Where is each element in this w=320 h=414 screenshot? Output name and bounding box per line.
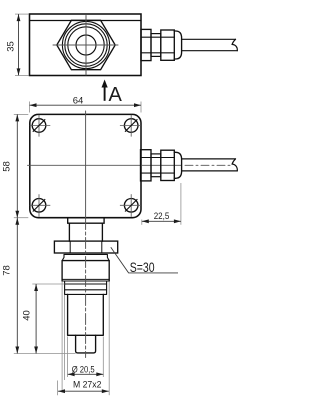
- hex nut boss (top view): [57, 20, 115, 69]
- mounting hole top-right: [120, 115, 141, 137]
- dimension 22,5: [142, 183, 181, 225]
- svg-text:40: 40: [22, 310, 33, 321]
- svg-text:S=30: S=30: [130, 259, 155, 275]
- cable top line (front view): [182, 158, 236, 160]
- dimension 40: [32, 284, 64, 354]
- leader S=30: [111, 247, 178, 273]
- boss circle inner: [68, 27, 104, 63]
- gland facet lines (top view): [141, 36, 174, 38]
- dimension M 27x2: [58, 282, 110, 396]
- svg-text:78: 78: [1, 265, 12, 276]
- pressure tip: [76, 335, 96, 353]
- dimension 78: [14, 218, 76, 354]
- gland body (front view): [161, 150, 175, 180]
- dimension Ø 20,5: [68, 337, 104, 378]
- svg-text:M 27x2: M 27x2: [73, 379, 102, 390]
- thread section M27: [62, 261, 109, 281]
- cable centerline dashes (front view): [185, 164, 233, 166]
- dimension 35 (top view height): [15, 14, 29, 75]
- cable break curve (top view): [232, 39, 237, 50]
- section arrow A: [102, 80, 123, 107]
- centerline vertical (top view): [85, 16, 87, 76]
- neck: [69, 223, 102, 241]
- cable top line (top view): [182, 38, 236, 40]
- gland facet lines (front view): [141, 157, 175, 159]
- svg-text:Ø 20,5: Ø 20,5: [72, 365, 95, 376]
- housing body (top view): [30, 14, 142, 76]
- mounting hole top-left: [30, 115, 51, 137]
- mounting hole bottom-left: [30, 194, 51, 217]
- fitting centerline: [85, 219, 87, 358]
- cable bottom line (top view): [182, 50, 238, 52]
- hex nut S=30: [54, 241, 117, 253]
- boss circle outer: [62, 21, 109, 68]
- cable bottom line (front view): [182, 170, 238, 172]
- svg-text:64: 64: [73, 96, 84, 107]
- cable break curve (front view): [232, 159, 237, 171]
- shank Ø20,5: [68, 294, 104, 335]
- svg-text:22,5: 22,5: [154, 211, 170, 222]
- dimension 58: [14, 114, 28, 217]
- housing box (front view): [30, 114, 141, 217]
- thread bottom chamfer line: [62, 278, 109, 280]
- gland dome (top view): [174, 31, 181, 59]
- centerline horizontal (top view): [53, 44, 118, 46]
- flange step: [68, 218, 104, 224]
- mounting hole bottom-right: [120, 194, 141, 217]
- svg-text:35: 35: [5, 41, 16, 52]
- cable gland locknut (top view): [141, 29, 151, 60]
- svg-text:A: A: [109, 84, 123, 106]
- gland neck (top view): [151, 34, 161, 57]
- cover step edge line: [30, 20, 142, 22]
- gland body (top view): [161, 30, 175, 60]
- boss circle chamfer: [65, 24, 107, 66]
- svg-text:58: 58: [1, 161, 12, 172]
- center hole circle: [76, 35, 96, 55]
- cable gland (front view): [141, 150, 238, 181]
- gland neck (front view): [151, 154, 161, 177]
- box vertical centerline: [85, 111, 87, 218]
- gland dome (front view): [174, 152, 181, 178]
- groove block: [62, 281, 109, 294]
- gland locknut (front view): [141, 150, 152, 181]
- nut facet lines: [69, 241, 71, 253]
- washer below nut: [62, 254, 109, 260]
- box horizontal centerline / seam: [28, 164, 182, 166]
- dimension 64: [30, 102, 142, 113]
